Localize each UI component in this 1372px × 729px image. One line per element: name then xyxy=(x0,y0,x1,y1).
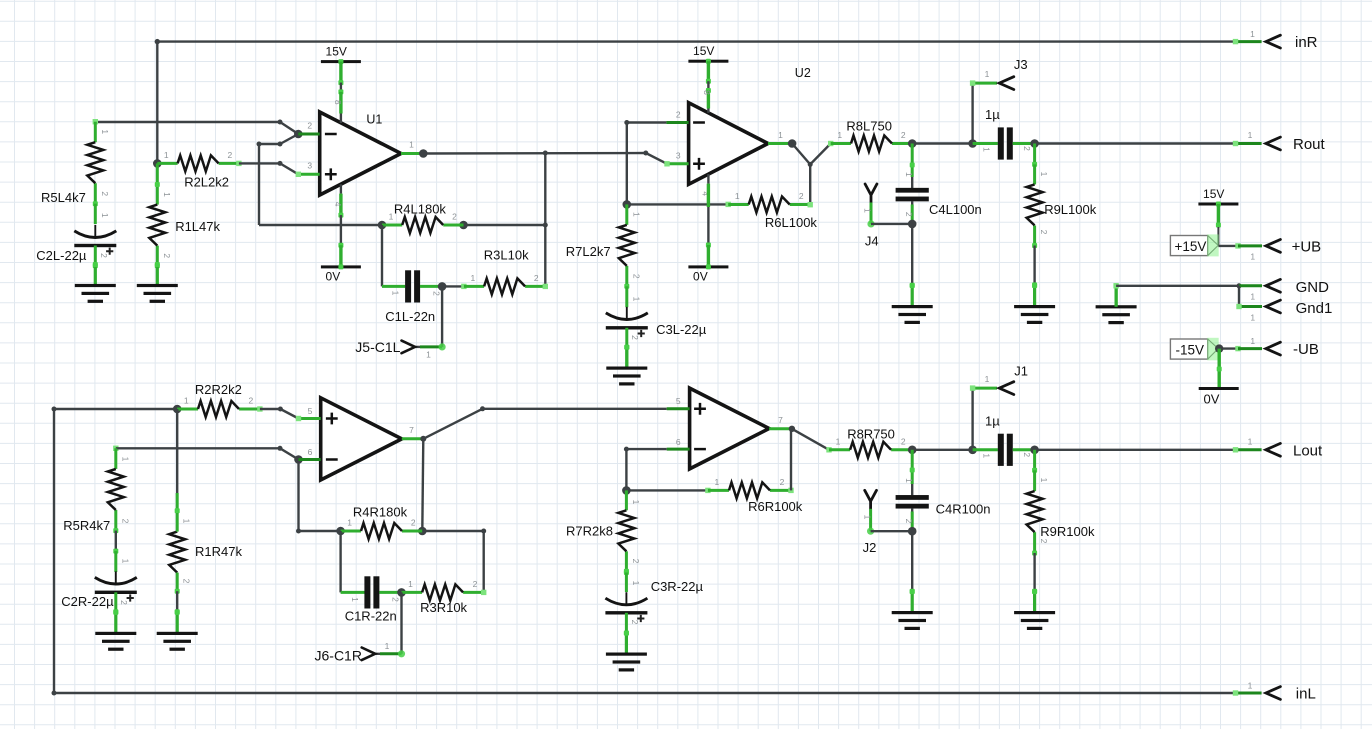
wire inR net xyxy=(157,39,1261,44)
wire -UB xyxy=(1219,346,1262,351)
svg-text:J6-C1R: J6-C1R xyxy=(315,648,362,664)
svg-text:R6R100k: R6R100k xyxy=(748,499,803,514)
wire U2B pin6 link xyxy=(624,447,667,491)
resistor R4L180k xyxy=(378,201,468,233)
svg-text:1: 1 xyxy=(409,140,414,150)
ground R1L xyxy=(137,262,178,303)
ground C2L xyxy=(75,262,116,303)
svg-text:2: 2 xyxy=(1022,146,1032,151)
resistor R3L10k xyxy=(442,248,548,295)
node U2B output xyxy=(789,426,795,432)
resistor R8L750 xyxy=(828,119,912,152)
svg-text:0V: 0V xyxy=(326,269,341,283)
svg-text:R3R10k: R3R10k xyxy=(420,600,467,615)
svg-text:R8L750: R8L750 xyxy=(846,119,892,134)
svg-text:2: 2 xyxy=(432,291,442,296)
svg-text:Lout: Lout xyxy=(1293,442,1323,459)
svg-text:2: 2 xyxy=(799,191,804,201)
wire U1B out row xyxy=(483,408,667,410)
svg-text:1: 1 xyxy=(471,273,476,283)
connector J6-C1R xyxy=(315,592,406,663)
svg-text:1µ: 1µ xyxy=(985,413,1000,428)
wire Rout net xyxy=(1035,141,1262,146)
wire C4L to ground xyxy=(910,224,915,288)
node C4R bottom junction xyxy=(908,527,917,536)
svg-text:R4R180k: R4R180k xyxy=(353,505,408,520)
wire R6R row xyxy=(626,489,708,491)
svg-text:1: 1 xyxy=(184,396,189,406)
svg-text:1: 1 xyxy=(162,192,172,197)
ground C3R xyxy=(606,631,647,672)
op-amp U2 xyxy=(664,66,811,184)
svg-text:U2: U2 xyxy=(795,66,811,80)
svg-text:2: 2 xyxy=(307,121,312,131)
svg-text:1: 1 xyxy=(631,212,641,217)
wire R4R right xyxy=(422,529,486,593)
resistor R8R750 xyxy=(826,426,912,457)
svg-text:2: 2 xyxy=(452,212,457,222)
net label -15V xyxy=(1170,338,1218,361)
wire to R2R xyxy=(54,408,177,410)
resistor R6L100k xyxy=(726,191,818,230)
svg-text:2: 2 xyxy=(391,597,401,602)
svg-text:15V: 15V xyxy=(693,44,714,58)
svg-text:2: 2 xyxy=(901,130,906,140)
svg-text:1: 1 xyxy=(164,150,169,160)
net label +15V xyxy=(1170,234,1218,256)
svg-text:C1R-22n: C1R-22n xyxy=(345,609,397,624)
resistor R1L47k xyxy=(149,163,220,268)
svg-text:3: 3 xyxy=(307,161,312,171)
ground C2R xyxy=(95,610,136,651)
capacitor C2R-22µ xyxy=(61,531,137,615)
node C1L junction xyxy=(438,282,447,291)
power 15V U2 xyxy=(688,44,728,113)
connector Gnd1 xyxy=(1250,300,1332,323)
svg-text:2: 2 xyxy=(411,518,416,528)
resistor R9L100k xyxy=(1027,144,1097,288)
svg-text:5: 5 xyxy=(676,396,681,406)
svg-text:1: 1 xyxy=(426,350,431,360)
svg-text:J4: J4 xyxy=(865,233,879,248)
node C4L bottom junction xyxy=(908,220,917,229)
svg-text:2: 2 xyxy=(100,191,110,196)
power 0V U1 xyxy=(321,184,361,283)
svg-text:1µ: 1µ xyxy=(985,107,1000,122)
wire inL net xyxy=(52,407,1262,696)
svg-text:inR: inR xyxy=(1295,34,1318,51)
svg-text:1: 1 xyxy=(385,641,390,651)
svg-text:2: 2 xyxy=(904,519,914,524)
svg-text:R9L100k: R9L100k xyxy=(1044,202,1097,217)
svg-text:2: 2 xyxy=(901,436,906,446)
wire +UB xyxy=(1218,243,1262,248)
svg-text:2: 2 xyxy=(473,579,478,589)
svg-text:1: 1 xyxy=(1248,436,1253,446)
svg-text:GND: GND xyxy=(1296,279,1330,296)
svg-text:1: 1 xyxy=(1250,252,1255,262)
svg-text:1: 1 xyxy=(982,453,992,458)
svg-text:1: 1 xyxy=(389,212,394,222)
capacitor C3L-22µ xyxy=(606,286,707,368)
op-amp U1 xyxy=(296,112,424,195)
svg-text:1: 1 xyxy=(100,129,110,134)
capacitor C4R100n xyxy=(896,450,991,531)
svg-text:2: 2 xyxy=(534,273,539,283)
capacitor C1R-22n xyxy=(341,576,402,623)
svg-text:1: 1 xyxy=(985,69,990,79)
svg-text:1: 1 xyxy=(1248,681,1253,691)
ground R1R xyxy=(157,610,198,651)
svg-text:2: 2 xyxy=(182,579,192,584)
wire Lout net xyxy=(1035,447,1262,452)
node 1µ bottom right junction xyxy=(1030,446,1039,455)
svg-text:2: 2 xyxy=(162,253,172,258)
svg-text:4: 4 xyxy=(333,202,343,207)
svg-text:2: 2 xyxy=(676,110,681,120)
power 0V right xyxy=(1199,349,1239,407)
ground R9L xyxy=(1014,283,1055,324)
svg-text:C2R-22µ: C2R-22µ xyxy=(61,594,114,609)
node R8R out junction xyxy=(908,446,917,455)
wire input column xyxy=(156,42,158,164)
svg-text:Gnd1: Gnd1 xyxy=(1296,300,1333,317)
wire to 1µ bottom xyxy=(912,449,972,451)
wire feedback right column xyxy=(543,151,548,287)
connector -UB xyxy=(1250,336,1319,358)
wire to 1µ xyxy=(912,142,972,144)
svg-text:1: 1 xyxy=(837,130,842,140)
svg-text:15V: 15V xyxy=(326,45,347,59)
node R4L right junction xyxy=(543,223,548,228)
capacitor C4L100n xyxy=(896,144,982,224)
wire R6R up xyxy=(790,429,792,491)
resistor R4R180k xyxy=(336,505,426,540)
node 1µ bottom left junction xyxy=(968,446,977,455)
resistor R5L4k7 xyxy=(41,119,110,206)
capacitor C3R-22µ xyxy=(605,570,703,636)
wire U1B out diag xyxy=(423,406,485,439)
node C1R junction xyxy=(397,588,406,597)
svg-text:1: 1 xyxy=(836,436,841,446)
svg-text:1: 1 xyxy=(982,147,992,152)
node U1B pin6 junction xyxy=(294,455,303,464)
ground C4R xyxy=(892,589,933,630)
svg-text:C3L-22µ: C3L-22µ xyxy=(656,322,707,337)
svg-text:2: 2 xyxy=(1022,452,1032,457)
wire pin6 feedback xyxy=(296,460,341,534)
svg-text:1: 1 xyxy=(391,291,401,296)
svg-text:1: 1 xyxy=(1250,29,1255,39)
ground C4L xyxy=(892,283,933,324)
wire R2R to pin5 xyxy=(260,407,299,419)
svg-text:1: 1 xyxy=(735,191,740,201)
svg-text:1: 1 xyxy=(631,297,641,302)
svg-text:R1L47k: R1L47k xyxy=(175,219,220,234)
svg-text:0V: 0V xyxy=(1204,392,1220,407)
capacitor C2L-22µ xyxy=(36,204,116,269)
svg-text:1: 1 xyxy=(778,130,783,140)
svg-text:R2L2k2: R2L2k2 xyxy=(184,175,229,190)
wire U2 output Y split xyxy=(792,144,831,205)
connector J3 xyxy=(970,57,1028,143)
svg-text:6: 6 xyxy=(308,447,313,457)
resistor R5R4k7 xyxy=(63,448,130,533)
svg-text:1: 1 xyxy=(1039,478,1049,483)
svg-text:1: 1 xyxy=(1248,130,1253,140)
wire R4L junction down xyxy=(381,225,383,286)
svg-text:5: 5 xyxy=(308,406,313,416)
connector GND xyxy=(1250,279,1329,302)
svg-text:7: 7 xyxy=(778,415,783,425)
svg-text:1: 1 xyxy=(182,519,192,524)
node -15V junction xyxy=(1215,344,1223,352)
svg-text:R1R47k: R1R47k xyxy=(195,544,242,559)
svg-text:1: 1 xyxy=(863,208,873,213)
svg-text:15V: 15V xyxy=(1203,187,1224,201)
svg-text:+15V: +15V xyxy=(1175,239,1207,254)
svg-text:C1L-22n: C1L-22n xyxy=(385,309,435,324)
ground GND net xyxy=(1096,283,1137,324)
svg-text:2: 2 xyxy=(120,519,130,524)
svg-text:R4L180k: R4L180k xyxy=(394,201,447,216)
connector inR xyxy=(1250,29,1318,51)
resistor R2L2k2 xyxy=(157,150,241,190)
wire Gnd1 net xyxy=(1236,286,1262,309)
svg-text:Rout: Rout xyxy=(1293,136,1326,153)
resistor R2R2k2 xyxy=(177,382,262,417)
svg-text:J5-C1L: J5-C1L xyxy=(355,339,400,355)
power 15V right xyxy=(1198,187,1238,246)
node junction inR column xyxy=(155,39,160,44)
svg-text:J1: J1 xyxy=(1014,364,1028,379)
op-amp U1B xyxy=(296,398,424,480)
svg-text:8: 8 xyxy=(333,100,343,105)
svg-text:1: 1 xyxy=(631,500,641,505)
node 1µ left junction xyxy=(968,139,977,148)
connector Lout xyxy=(1248,436,1323,459)
resistor R6R100k xyxy=(705,477,803,514)
capacitor 1µ top xyxy=(973,107,1035,160)
svg-text:3: 3 xyxy=(676,151,681,161)
svg-text:1: 1 xyxy=(120,559,130,564)
svg-text:C2L-22µ: C2L-22µ xyxy=(36,248,87,263)
power 0V U2 xyxy=(688,174,728,283)
svg-text:J2: J2 xyxy=(863,540,877,555)
svg-text:R2R2k2: R2R2k2 xyxy=(195,382,242,397)
svg-text:6: 6 xyxy=(676,437,681,447)
node R2L junction xyxy=(153,159,162,168)
wire U1B out down xyxy=(422,439,423,531)
svg-text:-UB: -UB xyxy=(1293,341,1319,358)
svg-text:1: 1 xyxy=(904,478,914,483)
connector J4 xyxy=(863,184,913,248)
svg-text:2: 2 xyxy=(780,477,785,487)
svg-text:1: 1 xyxy=(120,457,130,462)
node U2 output xyxy=(788,139,797,148)
wire R2L2k2 to U1 pin3 xyxy=(239,161,298,174)
svg-text:2: 2 xyxy=(249,396,254,406)
svg-text:2: 2 xyxy=(1039,539,1049,544)
node U1B output xyxy=(420,436,426,442)
connector inL xyxy=(1248,681,1316,703)
svg-text:+UB: +UB xyxy=(1292,238,1322,255)
svg-text:1: 1 xyxy=(350,597,360,602)
node R2R junction xyxy=(173,405,182,414)
svg-text:R7R2k8: R7R2k8 xyxy=(566,524,613,539)
op-amp U2B xyxy=(667,388,792,469)
connector J5-C1L xyxy=(355,286,445,359)
wire feedback to U1 pin2 xyxy=(257,134,299,147)
ground R9R xyxy=(1014,589,1055,630)
svg-text:1: 1 xyxy=(1250,313,1255,323)
svg-text:1: 1 xyxy=(862,515,872,520)
connector J2 xyxy=(862,490,912,555)
wire R4L to column xyxy=(464,224,546,226)
wire U2 pin2 link xyxy=(624,120,666,204)
svg-text:7: 7 xyxy=(409,425,414,435)
connector J1 xyxy=(970,364,1028,450)
wire U1 output to U2 pin3 xyxy=(423,151,667,164)
wire R4R left down xyxy=(339,531,341,592)
ground C3L xyxy=(606,345,647,386)
node U1 pin2 junction xyxy=(294,130,303,139)
node R8L out junction xyxy=(908,139,917,148)
resistor R9R100k xyxy=(1027,450,1095,594)
wire R5R row xyxy=(113,446,298,460)
svg-text:2: 2 xyxy=(228,150,233,160)
svg-text:1: 1 xyxy=(1250,336,1255,346)
svg-text:2: 2 xyxy=(631,559,641,564)
node U1 output xyxy=(419,149,428,158)
svg-text:2: 2 xyxy=(1039,230,1049,235)
svg-text:R8R750: R8R750 xyxy=(847,426,895,441)
svg-text:2: 2 xyxy=(99,253,109,258)
svg-text:1: 1 xyxy=(347,518,352,528)
svg-text:R7L2k7: R7L2k7 xyxy=(566,244,611,259)
svg-text:R6L100k: R6L100k xyxy=(765,215,818,230)
svg-text:C3R-22µ: C3R-22µ xyxy=(651,579,704,594)
wire U2B out diag xyxy=(792,429,829,450)
node 1µ right junction xyxy=(1030,139,1039,148)
svg-text:U1: U1 xyxy=(366,113,382,127)
svg-text:2: 2 xyxy=(119,600,129,605)
node R7R junction xyxy=(622,486,631,495)
svg-text:R3L10k: R3L10k xyxy=(484,248,529,263)
svg-text:R5L4k7: R5L4k7 xyxy=(41,190,86,205)
svg-text:inL: inL xyxy=(1296,686,1316,703)
resistor R7L2k7 xyxy=(566,204,642,288)
svg-text:1: 1 xyxy=(985,374,990,384)
wire GND net xyxy=(1116,283,1262,288)
wire R5L4k7 to U1 pin2 xyxy=(95,120,298,135)
svg-text:2: 2 xyxy=(630,335,640,340)
svg-text:R5R4k7: R5R4k7 xyxy=(63,518,110,533)
svg-text:J3: J3 xyxy=(1014,57,1028,72)
svg-text:1: 1 xyxy=(715,477,720,487)
wire feedback column xyxy=(259,144,382,225)
capacitor C1L-22n xyxy=(382,270,442,324)
svg-text:0V: 0V xyxy=(693,269,708,283)
svg-text:1: 1 xyxy=(631,581,641,586)
connector Rout xyxy=(1248,130,1326,153)
capacitor 1µ bottom xyxy=(973,413,1035,466)
wire R6R7 row xyxy=(627,184,728,207)
svg-text:C4R100n: C4R100n xyxy=(936,501,991,516)
resistor R3R10k xyxy=(402,579,487,615)
svg-text:1: 1 xyxy=(904,172,914,177)
resistor R1R47k xyxy=(169,409,242,614)
svg-text:C4L100n: C4L100n xyxy=(929,202,982,217)
svg-text:1: 1 xyxy=(408,579,413,589)
svg-text:2: 2 xyxy=(904,212,914,217)
svg-text:2: 2 xyxy=(630,620,640,625)
power 15V U1 xyxy=(321,45,361,123)
svg-text:1: 1 xyxy=(1039,172,1049,177)
resistor R7R2k8 xyxy=(566,490,641,573)
svg-text:8: 8 xyxy=(702,90,712,95)
connector +UB xyxy=(1250,238,1321,261)
svg-text:R9R100k: R9R100k xyxy=(1040,524,1095,539)
svg-text:1: 1 xyxy=(1250,292,1255,302)
svg-text:-15V: -15V xyxy=(1176,342,1205,357)
wire C4R to ground xyxy=(910,531,915,594)
node R7L junction xyxy=(623,200,632,209)
svg-text:2: 2 xyxy=(631,274,641,279)
svg-text:1: 1 xyxy=(100,213,110,218)
